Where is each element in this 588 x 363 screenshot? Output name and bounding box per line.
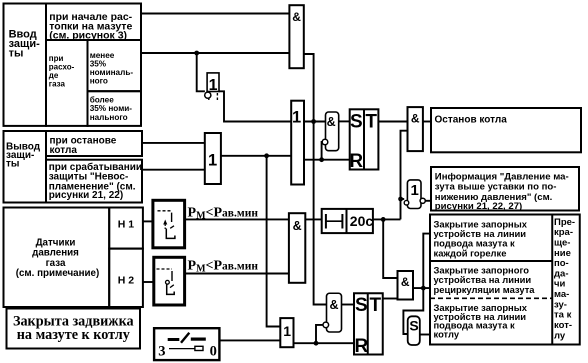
wire: OR1 output to AND small 1 input <box>304 121 326 123</box>
svg-text:0: 0 <box>210 343 217 359</box>
wire: AND small 2 output to trigger 2 S input <box>342 304 355 306</box>
AND gate (fuel-oil pressure, middle) <box>289 213 305 283</box>
manual switch box 3 —/— 0 <box>154 328 219 360</box>
wire: sensor 2 output to AND middle input 2 <box>185 273 289 275</box>
wire: branch up to AND small 2 inverted input <box>316 325 323 343</box>
S/T/R trigger 1 <box>349 109 378 172</box>
wire: останов котла box to OR2 input 1 <box>142 142 205 144</box>
svg-text:20с: 20с <box>350 213 374 229</box>
svg-text:котла: котла <box>50 145 78 156</box>
wire: AND top output down the bus to AND small 2 input <box>304 54 327 305</box>
wire: bus down from OR2 output to bottom OR input 1 <box>267 156 281 327</box>
output box: Информация Давление мазута выше уставки по понижению давления (см. рисунки 21, 22, 27) <box>431 167 579 212</box>
wire: sensor 1 output to AND middle input 1 <box>185 218 289 220</box>
NOT gate (inverter, top small) <box>205 73 219 100</box>
junction on bottom R wire <box>314 341 319 346</box>
wire: riser up to AND shutdown input 2 <box>401 131 408 220</box>
wire: memory S output to boiler line box <box>420 334 430 336</box>
pressure sensor 1 (contact symbol) <box>153 200 185 248</box>
svg-text:Н 1: Н 1 <box>118 219 135 231</box>
label P_m < P_av.min (lower) <box>188 258 259 274</box>
wire: trigger 2 T output to AND recirculation input 2 <box>383 298 398 300</box>
svg-text:&: & <box>293 219 302 233</box>
S/T/R trigger 2 <box>354 293 383 357</box>
svg-text:Останов котла: Останов котла <box>435 114 508 125</box>
output text: Закрытие запорного устройства на линии рециркуляции мазута <box>434 264 536 294</box>
output box group: closing shut-off devices <box>430 215 580 345</box>
svg-text:&: & <box>329 298 338 312</box>
svg-text:1: 1 <box>411 182 419 199</box>
svg-text:R: R <box>349 151 363 172</box>
svg-text:&: & <box>401 275 410 289</box>
wire: branch up to AND small 1 inverted input <box>321 142 324 160</box>
AND gate (recirculation output) <box>398 271 414 300</box>
input table cell: Вывод защиты <box>4 131 47 203</box>
wire: branch up to burners box <box>423 234 430 289</box>
sensor channel cell H1 <box>109 208 143 249</box>
junction after timer <box>381 217 386 222</box>
svg-text:Н 2: Н 2 <box>118 275 135 287</box>
svg-text:лу: лу <box>554 330 566 341</box>
svg-text:каждой горелке: каждой горелке <box>434 247 507 258</box>
wire: менее 35% cell to AND top input 2 <box>141 52 289 54</box>
time delay block 20 s <box>322 209 374 233</box>
label P_m < P_av.min (upper) <box>188 205 259 221</box>
wire: растопка box to AND top input 1 <box>141 13 289 15</box>
svg-text:рисунки 21, 22): рисунки 21, 22) <box>49 190 123 201</box>
svg-text:1: 1 <box>209 77 218 94</box>
svg-text:котлу: котлу <box>434 328 460 339</box>
wire: H2 cell to sensor 2 <box>143 281 154 283</box>
input table cell: Ввод защиты <box>4 4 47 126</box>
wire: NOT gate output to OR1 input 1 <box>219 91 291 121</box>
sensor group box: Датчики давления газа (см. примечание) <box>4 208 110 308</box>
svg-text:3: 3 <box>158 343 165 359</box>
junction on recirculation output <box>421 286 426 291</box>
memory block S <box>408 316 420 345</box>
svg-text:&: & <box>411 112 420 126</box>
OR gate (bottom) <box>280 318 293 347</box>
output column text: Прекращение подачи мазута к котлу <box>554 217 575 342</box>
condition cell: при расходе газа <box>46 40 88 126</box>
svg-text:S: S <box>350 111 363 132</box>
wire: branch down to AND recirculation input 1 <box>383 219 397 278</box>
AND gate small (before S/T trigger 2) <box>323 293 342 332</box>
output text: Закрытие запорных устройств на линии подвода мазута к каждой горелке <box>434 219 528 259</box>
svg-text:более: более <box>90 95 115 105</box>
condition cell: менее 35% номинального <box>88 40 142 91</box>
svg-text:S: S <box>409 317 418 333</box>
pressure sensor 2 (contact symbol) <box>154 257 185 305</box>
junction on riser at NOT info input <box>398 197 403 202</box>
wire: AND shutdown output to Останов котла box <box>423 121 431 123</box>
svg-text:на мазуте к котлу: на мазуте к котлу <box>17 327 130 343</box>
wire: riser branch to NOT info gate input <box>401 198 405 200</box>
AND gate small (before S/T trigger 1) <box>322 112 339 151</box>
svg-text:1: 1 <box>283 323 291 339</box>
wire: OR2 output to OR1 input 2 <box>221 155 291 157</box>
svg-text:&: & <box>327 115 336 129</box>
junction on R wire <box>319 157 324 162</box>
svg-text:рисунки 21, 22, 27): рисунки 21, 22, 27) <box>435 201 522 212</box>
wire: OR1 lower output to trigger 1 R input <box>304 159 350 161</box>
junction on OR2 output <box>264 153 269 158</box>
NOT gate (information output) <box>404 180 425 209</box>
OR gate 2 (shutdown inputs) <box>205 133 221 184</box>
svg-text:S: S <box>355 295 368 316</box>
wire: невоспламенение box to OR2 input 2 <box>142 169 205 171</box>
wire: AND middle output to timer input <box>305 218 321 220</box>
svg-text:(см. примечание): (см. примечание) <box>16 268 100 279</box>
output box: Останов котла <box>431 108 581 152</box>
svg-text:рециркуляции мазута: рециркуляции мазута <box>434 284 536 295</box>
AND gate (top) <box>289 5 303 68</box>
condition box: при срабатывании защиты Невоспламенение (см. рисунки 21, 22) <box>46 160 142 203</box>
condition box: при начале растопки на мазуте (см. рисунок 3) <box>46 4 141 42</box>
wire: trigger 1 T output to AND shutdown input 1 <box>378 121 407 123</box>
sensor channel cell H2 <box>109 249 143 307</box>
condition box: при останове котла <box>46 131 142 156</box>
wire: NOT info output to information box <box>425 200 431 202</box>
wire: branch down-left to memory S input <box>403 288 423 334</box>
svg-text:ты: ты <box>9 47 24 59</box>
wire: AND recirculation output to recirculation box <box>413 287 430 289</box>
wire: branch down to NOT gate inverted input <box>197 53 205 91</box>
svg-text:1: 1 <box>292 109 301 127</box>
svg-text:T: T <box>369 295 381 316</box>
svg-text:T: T <box>365 111 377 132</box>
wire: H1 cell to sensor 1 <box>143 220 153 222</box>
svg-text:&: & <box>292 10 301 24</box>
svg-text:ты: ты <box>6 159 19 170</box>
AND gate (boiler shutdown output) <box>408 107 423 151</box>
wire: bottom OR output to trigger 2 R input <box>294 342 355 344</box>
wire: timer output right <box>373 218 401 220</box>
condition cell: более 35% номинального <box>88 91 142 126</box>
wire: switch box to bottom OR input 2 <box>219 339 280 341</box>
svg-text:ного: ного <box>90 77 108 86</box>
svg-text:газа: газа <box>49 80 66 89</box>
junction on 35% wire <box>194 51 199 56</box>
output text: Закрытие запорных устройств на линии подвода мазута к котлу <box>434 302 528 339</box>
wire: AND small 1 output to trigger 1 S input <box>339 120 350 122</box>
svg-text:нального: нального <box>90 113 128 122</box>
svg-text:R: R <box>355 336 369 357</box>
junction bus and OR1 output <box>311 119 316 124</box>
note box: Закрыта задвижка на мазуте к котлу <box>7 309 141 349</box>
svg-text:1: 1 <box>208 151 217 169</box>
OR gate 1 (tall) <box>291 101 304 185</box>
